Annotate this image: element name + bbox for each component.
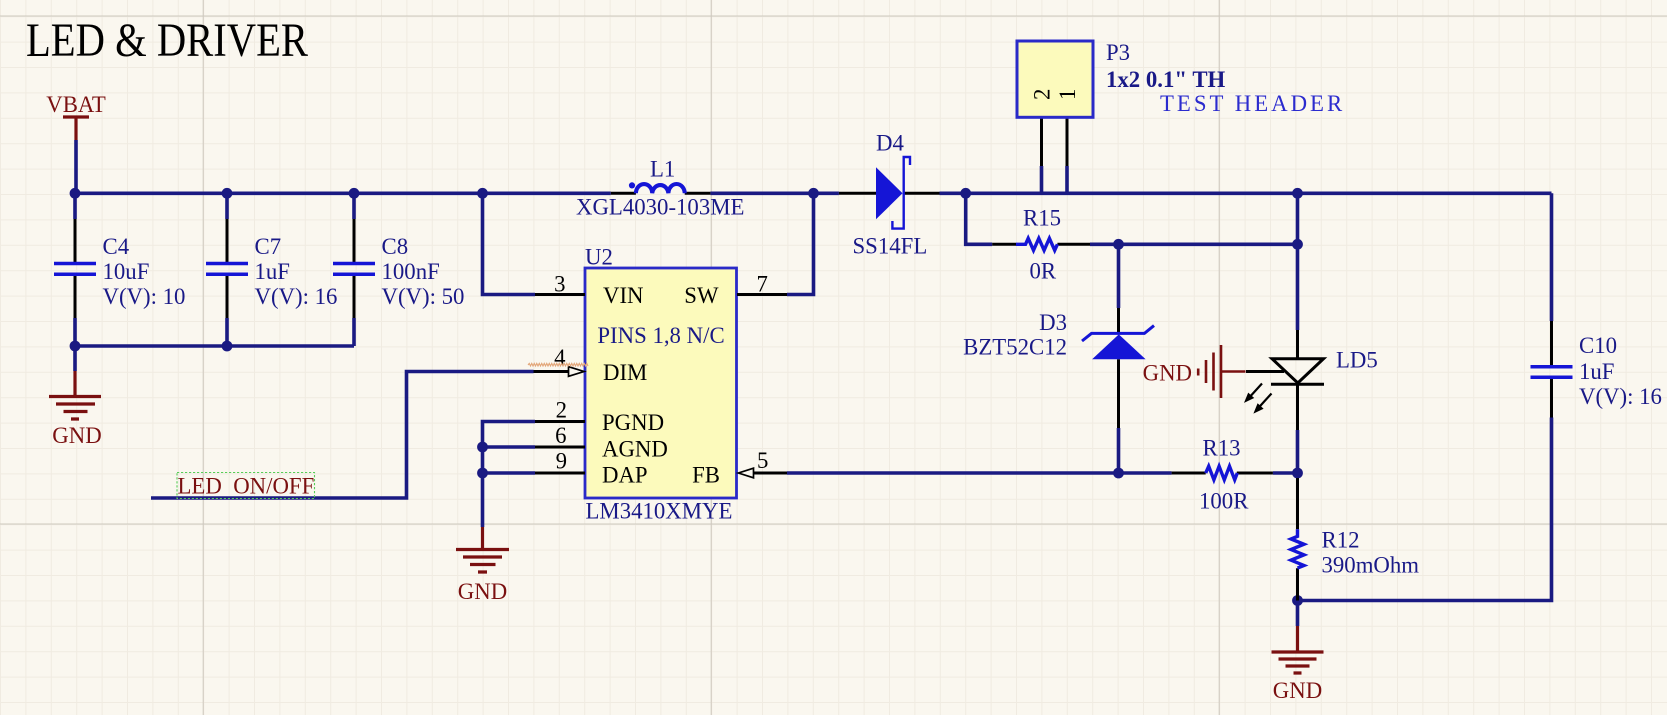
wire C4 top lead (73, 193, 77, 219)
net label LED_ON/OFF (177, 473, 315, 499)
wire C10 to bottom corner (1298, 418, 1552, 601)
svg-text:P3: P3 (1106, 40, 1130, 65)
svg-text:1x2 0.1" TH: 1x2 0.1" TH (1106, 67, 1226, 92)
P3 body (1017, 41, 1093, 117)
L1 polarity dot (629, 182, 635, 188)
ground GND (input caps) (49, 371, 102, 448)
wire C4 bottom lead (73, 318, 77, 346)
L1 winding (636, 184, 685, 193)
LD5 emission arrow 1 (1250, 384, 1262, 397)
wire top rail mid segment (L1 to D4) (710, 192, 839, 196)
svg-text:V(V): 16: V(V): 16 (255, 284, 338, 309)
svg-text:AGND: AGND (602, 437, 668, 462)
capacitor C10 (1531, 321, 1662, 418)
C4 plates (54, 264, 96, 275)
gnd stem (481, 527, 484, 549)
wire R15 to LED column (1090, 243, 1298, 247)
svg-text:1: 1 (1055, 89, 1080, 100)
gnd bars (456, 550, 509, 573)
wire C7 bottom lead (225, 318, 229, 346)
wire P3 pin2 stub (1040, 166, 1044, 193)
pin 3 VIN (535, 293, 585, 296)
junction VBAT/C4 at top rail (70, 188, 81, 199)
R13 zigzag body (1206, 466, 1238, 480)
D3 triangle (1092, 334, 1146, 359)
LD5 vertical pins (1296, 330, 1299, 430)
wire top rail left segment (75, 192, 611, 196)
capacitor C7 (206, 219, 337, 318)
D4 schottky cathode bar (892, 157, 910, 229)
pin 2 PGND (535, 420, 585, 423)
LD5 triangle (1272, 359, 1324, 383)
junction C8 at top rail (349, 188, 360, 199)
gnd stem (73, 371, 76, 396)
svg-text:GND: GND (458, 579, 507, 604)
svg-text:TEST HEADER: TEST HEADER (1160, 91, 1345, 116)
C8 plates (333, 264, 375, 275)
svg-text:GND: GND (1273, 678, 1322, 703)
svg-text:PGND: PGND (602, 410, 664, 435)
wire D3 top lead blue (1117, 244, 1121, 308)
svg-text:10uF: 10uF (103, 259, 150, 284)
R13 pins (1172, 472, 1273, 475)
junction SW riser at top rail (808, 188, 819, 199)
wire FB net (787, 471, 1119, 475)
D3 pins (1117, 308, 1120, 428)
junction C7 at top rail (222, 188, 233, 199)
junction R15/D3 (1113, 239, 1124, 250)
wire C8 bottom lead (352, 318, 356, 346)
svg-text:2: 2 (556, 398, 567, 423)
svg-text:0R: 0R (1030, 259, 1057, 284)
wire C8 top lead (352, 193, 356, 219)
junction R15 row / LED column (1292, 239, 1303, 250)
R12 pins (1296, 478, 1299, 601)
wire P3 pin1 stub (1065, 166, 1069, 193)
svg-text:D4: D4 (876, 131, 904, 156)
svg-text:GND: GND (1143, 361, 1192, 386)
wire LED column bottom (1296, 430, 1300, 478)
svg-text:C4: C4 (103, 234, 130, 259)
svg-text:9: 9 (556, 449, 567, 474)
junction D3/R13 at FB row (1113, 468, 1124, 479)
C10 pins (1550, 321, 1553, 418)
C4 pins (74, 219, 77, 318)
svg-text:7: 7 (757, 272, 768, 297)
wire LED column top (1296, 193, 1300, 330)
R15 pins (992, 243, 1090, 246)
svg-text:100nF: 100nF (382, 259, 440, 284)
D4 cathode pin (904, 192, 940, 195)
junction R13/LED/R12 (1292, 468, 1303, 479)
pin 7 SW (737, 293, 787, 296)
pin 6 AGND (535, 446, 585, 449)
wire D3 bottom lead blue (1117, 428, 1121, 473)
D3 zener cathode bar (1082, 326, 1154, 341)
wire C4 gnd stub (73, 346, 77, 371)
net label selection box (177, 473, 315, 499)
test header P3 (1017, 40, 1345, 166)
junction DAP at gnd column (477, 468, 488, 479)
svg-text:C10: C10 (1579, 333, 1617, 358)
svg-text:BZT52C12: BZT52C12 (963, 335, 1067, 360)
wire C7 top lead (225, 193, 229, 219)
signal gnd bars and lead (1198, 345, 1245, 398)
gnd stem (1296, 626, 1299, 652)
resistor R12 (1291, 478, 1419, 601)
junction D4 cathode / R15 drop (960, 188, 971, 199)
L1 pins (611, 192, 711, 195)
wire LED_ON/OFF to DIM (151, 372, 534, 499)
svg-text:C8: C8 (382, 234, 409, 259)
svg-text:L1: L1 (650, 157, 675, 182)
junction LED column at top rail (1292, 188, 1303, 199)
svg-text:VIN: VIN (603, 283, 644, 308)
resistor R13 (1172, 436, 1273, 514)
schottky diode D4 (839, 131, 940, 259)
wire bottom capacitor rail (75, 344, 354, 348)
svg-text:XGL4030-103ME: XGL4030-103ME (576, 195, 744, 220)
ground GND (R12) (1272, 626, 1324, 703)
svg-text:VBAT: VBAT (46, 92, 106, 117)
wire PGND harness (483, 422, 536, 528)
wire right edge drop to C10 (1550, 193, 1554, 321)
wire AGND stub (483, 445, 536, 449)
svg-text:FB: FB (692, 463, 720, 488)
LD5 cathode bar (1271, 383, 1324, 386)
capacitor C8 (333, 219, 464, 318)
resistor R15 (992, 206, 1090, 284)
junction VIN drop at top rail (477, 188, 488, 199)
C8 pins (353, 219, 356, 318)
R15 zigzag body (1016, 238, 1057, 250)
svg-text:DAP: DAP (602, 463, 648, 488)
pin 4 DIM input arrow (534, 370, 571, 373)
junction AGND at gnd column (477, 442, 488, 453)
svg-text:100R: 100R (1199, 489, 1249, 514)
svg-text:GND: GND (52, 423, 101, 448)
wire R13 left lead blue (1119, 471, 1172, 475)
svg-text:R15: R15 (1023, 206, 1061, 231)
svg-text:1uF: 1uF (255, 259, 290, 284)
LD5 left pin (1246, 370, 1284, 373)
svg-text:SS14FL: SS14FL (853, 234, 928, 259)
wire DAP stub (483, 471, 536, 475)
svg-text:V(V): 16: V(V): 16 (1579, 384, 1662, 409)
svg-text:R12: R12 (1322, 528, 1360, 553)
svg-text:LED ON/OFF: LED ON/OFF (178, 474, 315, 499)
wire VIN drop (483, 193, 536, 294)
svg-text:LD5: LD5 (1336, 348, 1378, 373)
svg-text:PINS 1,8 N/C: PINS 1,8 N/C (597, 323, 724, 348)
C7 plates (206, 264, 248, 275)
gnd bars (1272, 652, 1324, 673)
zener diode D3 (963, 308, 1154, 428)
svg-text:LM3410XMYE: LM3410XMYE (586, 499, 733, 524)
svg-text:3: 3 (554, 272, 565, 297)
LED LD5 (1244, 330, 1378, 430)
svg-text:DIM: DIM (603, 360, 647, 385)
ground GND (U2) (456, 527, 509, 604)
svg-text:6: 6 (555, 423, 566, 448)
inductor L1 (576, 157, 744, 220)
svg-text:U2: U2 (585, 245, 613, 270)
pin 5 FB input arrow (753, 472, 788, 475)
gnd bars (49, 397, 101, 420)
svg-text:2: 2 (1030, 89, 1055, 100)
svg-text:5: 5 (757, 448, 768, 473)
wire junction drop to R15 (966, 193, 993, 244)
C7 pins (226, 219, 229, 318)
wire top rail right segment (D4 to right edge) (940, 192, 1552, 196)
capacitor C4 (54, 219, 185, 318)
junction R12/C10 bottom (1292, 595, 1303, 606)
ERC squiggle on DIM pin (528, 363, 588, 366)
op-amp/regulator IC U2 body (585, 268, 737, 498)
svg-text:D3: D3 (1039, 310, 1067, 335)
wire SW riser (787, 193, 814, 294)
D4 anode pin (839, 192, 876, 195)
wire R12 bottom gnd stub (1296, 601, 1300, 627)
wire VBAT stem (74, 140, 78, 193)
LD5 emission arrow 2 (1260, 394, 1272, 407)
svg-text:C7: C7 (255, 234, 282, 259)
P3 pin stubs (1042, 117, 1068, 166)
svg-text:SW: SW (684, 283, 719, 308)
D4 triangle (876, 167, 903, 219)
R12 zigzag body (1291, 529, 1304, 568)
svg-text:390mOhm: 390mOhm (1322, 553, 1420, 578)
svg-text:R13: R13 (1203, 436, 1241, 461)
junction C7 at bottom rail (222, 341, 233, 352)
wire R13 right lead blue (1273, 471, 1298, 475)
svg-text:1uF: 1uF (1579, 359, 1614, 384)
svg-text:V(V): 50: V(V): 50 (382, 284, 465, 309)
C10 plates (1531, 367, 1573, 378)
svg-text:V(V): 10: V(V): 10 (103, 284, 186, 309)
svg-text:LED & DRIVER: LED & DRIVER (26, 15, 308, 67)
power port VBAT (46, 92, 106, 140)
pin 9 DAP (535, 472, 585, 475)
junction C4 at bottom rail (70, 341, 81, 352)
signal ground GND (LED anode return) (1143, 345, 1246, 398)
